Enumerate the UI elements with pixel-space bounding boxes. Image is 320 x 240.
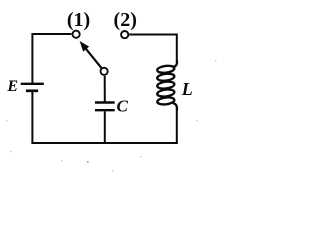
wire right vertical below coil	[176, 110, 178, 145]
battery E long plate	[21, 83, 44, 85]
switch arm wire	[86, 49, 102, 68]
svg-text:L: L	[181, 79, 193, 99]
wire terminal 2 to top-right corner and down	[129, 35, 177, 63]
capacitor C top plate	[95, 101, 115, 103]
svg-text:C: C	[117, 97, 129, 116]
terminal 2 contact circle	[121, 31, 128, 38]
capacitor C bottom plate	[95, 109, 115, 111]
switch pivot circle	[101, 68, 108, 75]
svg-text:E: E	[6, 78, 18, 95]
svg-text:(2): (2)	[114, 9, 137, 31]
scan speckles	[6, 60, 216, 171]
wire bottom rail	[31, 142, 177, 144]
inductor L coil	[157, 61, 177, 111]
switch arm arrowhead	[80, 41, 90, 52]
wire top-left horizontal	[32, 33, 71, 35]
wire left vertical (top)	[31, 33, 33, 83]
terminal 1 contact circle	[73, 31, 80, 38]
svg-text:(1): (1)	[67, 9, 90, 31]
wire left vertical (bottom)	[31, 92, 33, 144]
wire capacitor to bottom rail	[104, 111, 106, 144]
battery E short plate	[26, 89, 38, 92]
wire switch pivot to capacitor	[104, 76, 106, 102]
